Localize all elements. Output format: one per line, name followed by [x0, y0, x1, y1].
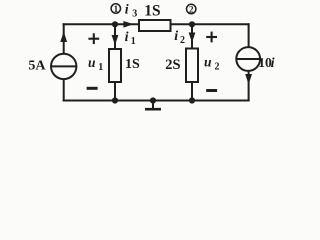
resistor G1 1S vertical — [109, 49, 121, 82]
wire 5A source bottom lead — [63, 79, 65, 100]
wire left vertical lead — [63, 24, 65, 53]
plus u2 — [206, 32, 217, 43]
wire right source bottom lead — [248, 71, 250, 101]
node 1 — [111, 4, 120, 28]
svg-text:2: 2 — [215, 62, 220, 73]
label 10i — [258, 55, 274, 71]
wire 2S resistor to bottom — [191, 82, 193, 101]
arrow i3 — [123, 21, 133, 28]
svg-text:i: i — [174, 29, 178, 44]
svg-text:1: 1 — [114, 4, 119, 14]
svg-text:u: u — [204, 54, 212, 69]
ground stem — [152, 101, 154, 109]
svg-text:5A: 5A — [28, 58, 46, 73]
svg-text:1S: 1S — [144, 2, 160, 19]
svg-text:i: i — [125, 2, 129, 17]
arrow i1 — [112, 35, 119, 45]
wire bottom horizontal — [64, 100, 249, 102]
ground bar — [145, 108, 161, 111]
junction dot bottom mid — [150, 97, 156, 103]
svg-text:2S: 2S — [165, 57, 180, 73]
node 2 — [187, 4, 196, 27]
dependent current source 10i — [236, 47, 260, 84]
minus u2 — [206, 89, 217, 92]
label u1 — [88, 55, 103, 73]
svg-text:i: i — [125, 30, 129, 45]
svg-text:2: 2 — [180, 35, 185, 46]
svg-text:3: 3 — [132, 8, 137, 19]
label i2 — [174, 29, 185, 46]
arrow i2 — [189, 33, 196, 43]
wire node1 to 1S resistor — [114, 24, 116, 49]
svg-text:1S: 1S — [125, 57, 140, 72]
wire right vertical top lead — [248, 24, 250, 47]
svg-text:2: 2 — [189, 5, 194, 15]
wire 1S resistor to bottom — [114, 82, 116, 101]
junction dot bottom left — [112, 97, 118, 103]
svg-text:1: 1 — [131, 36, 136, 47]
junction dot bottom right — [189, 97, 195, 103]
svg-text:u: u — [88, 55, 96, 70]
label i1 — [125, 30, 136, 47]
minus u1 — [87, 87, 98, 90]
resistor G3 1S horizontal — [139, 20, 171, 31]
wire node2 to 2S resistor — [191, 24, 193, 48]
svg-text:i: i — [271, 56, 275, 71]
label i3 — [125, 2, 137, 19]
plus u1 — [88, 33, 99, 44]
current source I1 5A — [51, 32, 76, 80]
wire top horizontal — [64, 23, 249, 25]
resistor G2 2S vertical — [186, 49, 198, 83]
label u2 — [204, 54, 220, 72]
svg-text:1: 1 — [98, 62, 103, 73]
